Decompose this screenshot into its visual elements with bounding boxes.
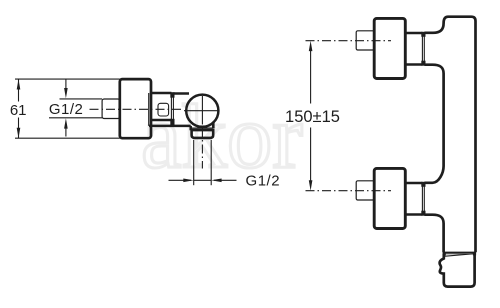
- svg-text:61: 61: [10, 102, 27, 119]
- svg-text:150±15: 150±15: [285, 108, 340, 126]
- svg-text:G1/2: G1/2: [246, 172, 281, 189]
- svg-text:G1/2: G1/2: [49, 101, 84, 118]
